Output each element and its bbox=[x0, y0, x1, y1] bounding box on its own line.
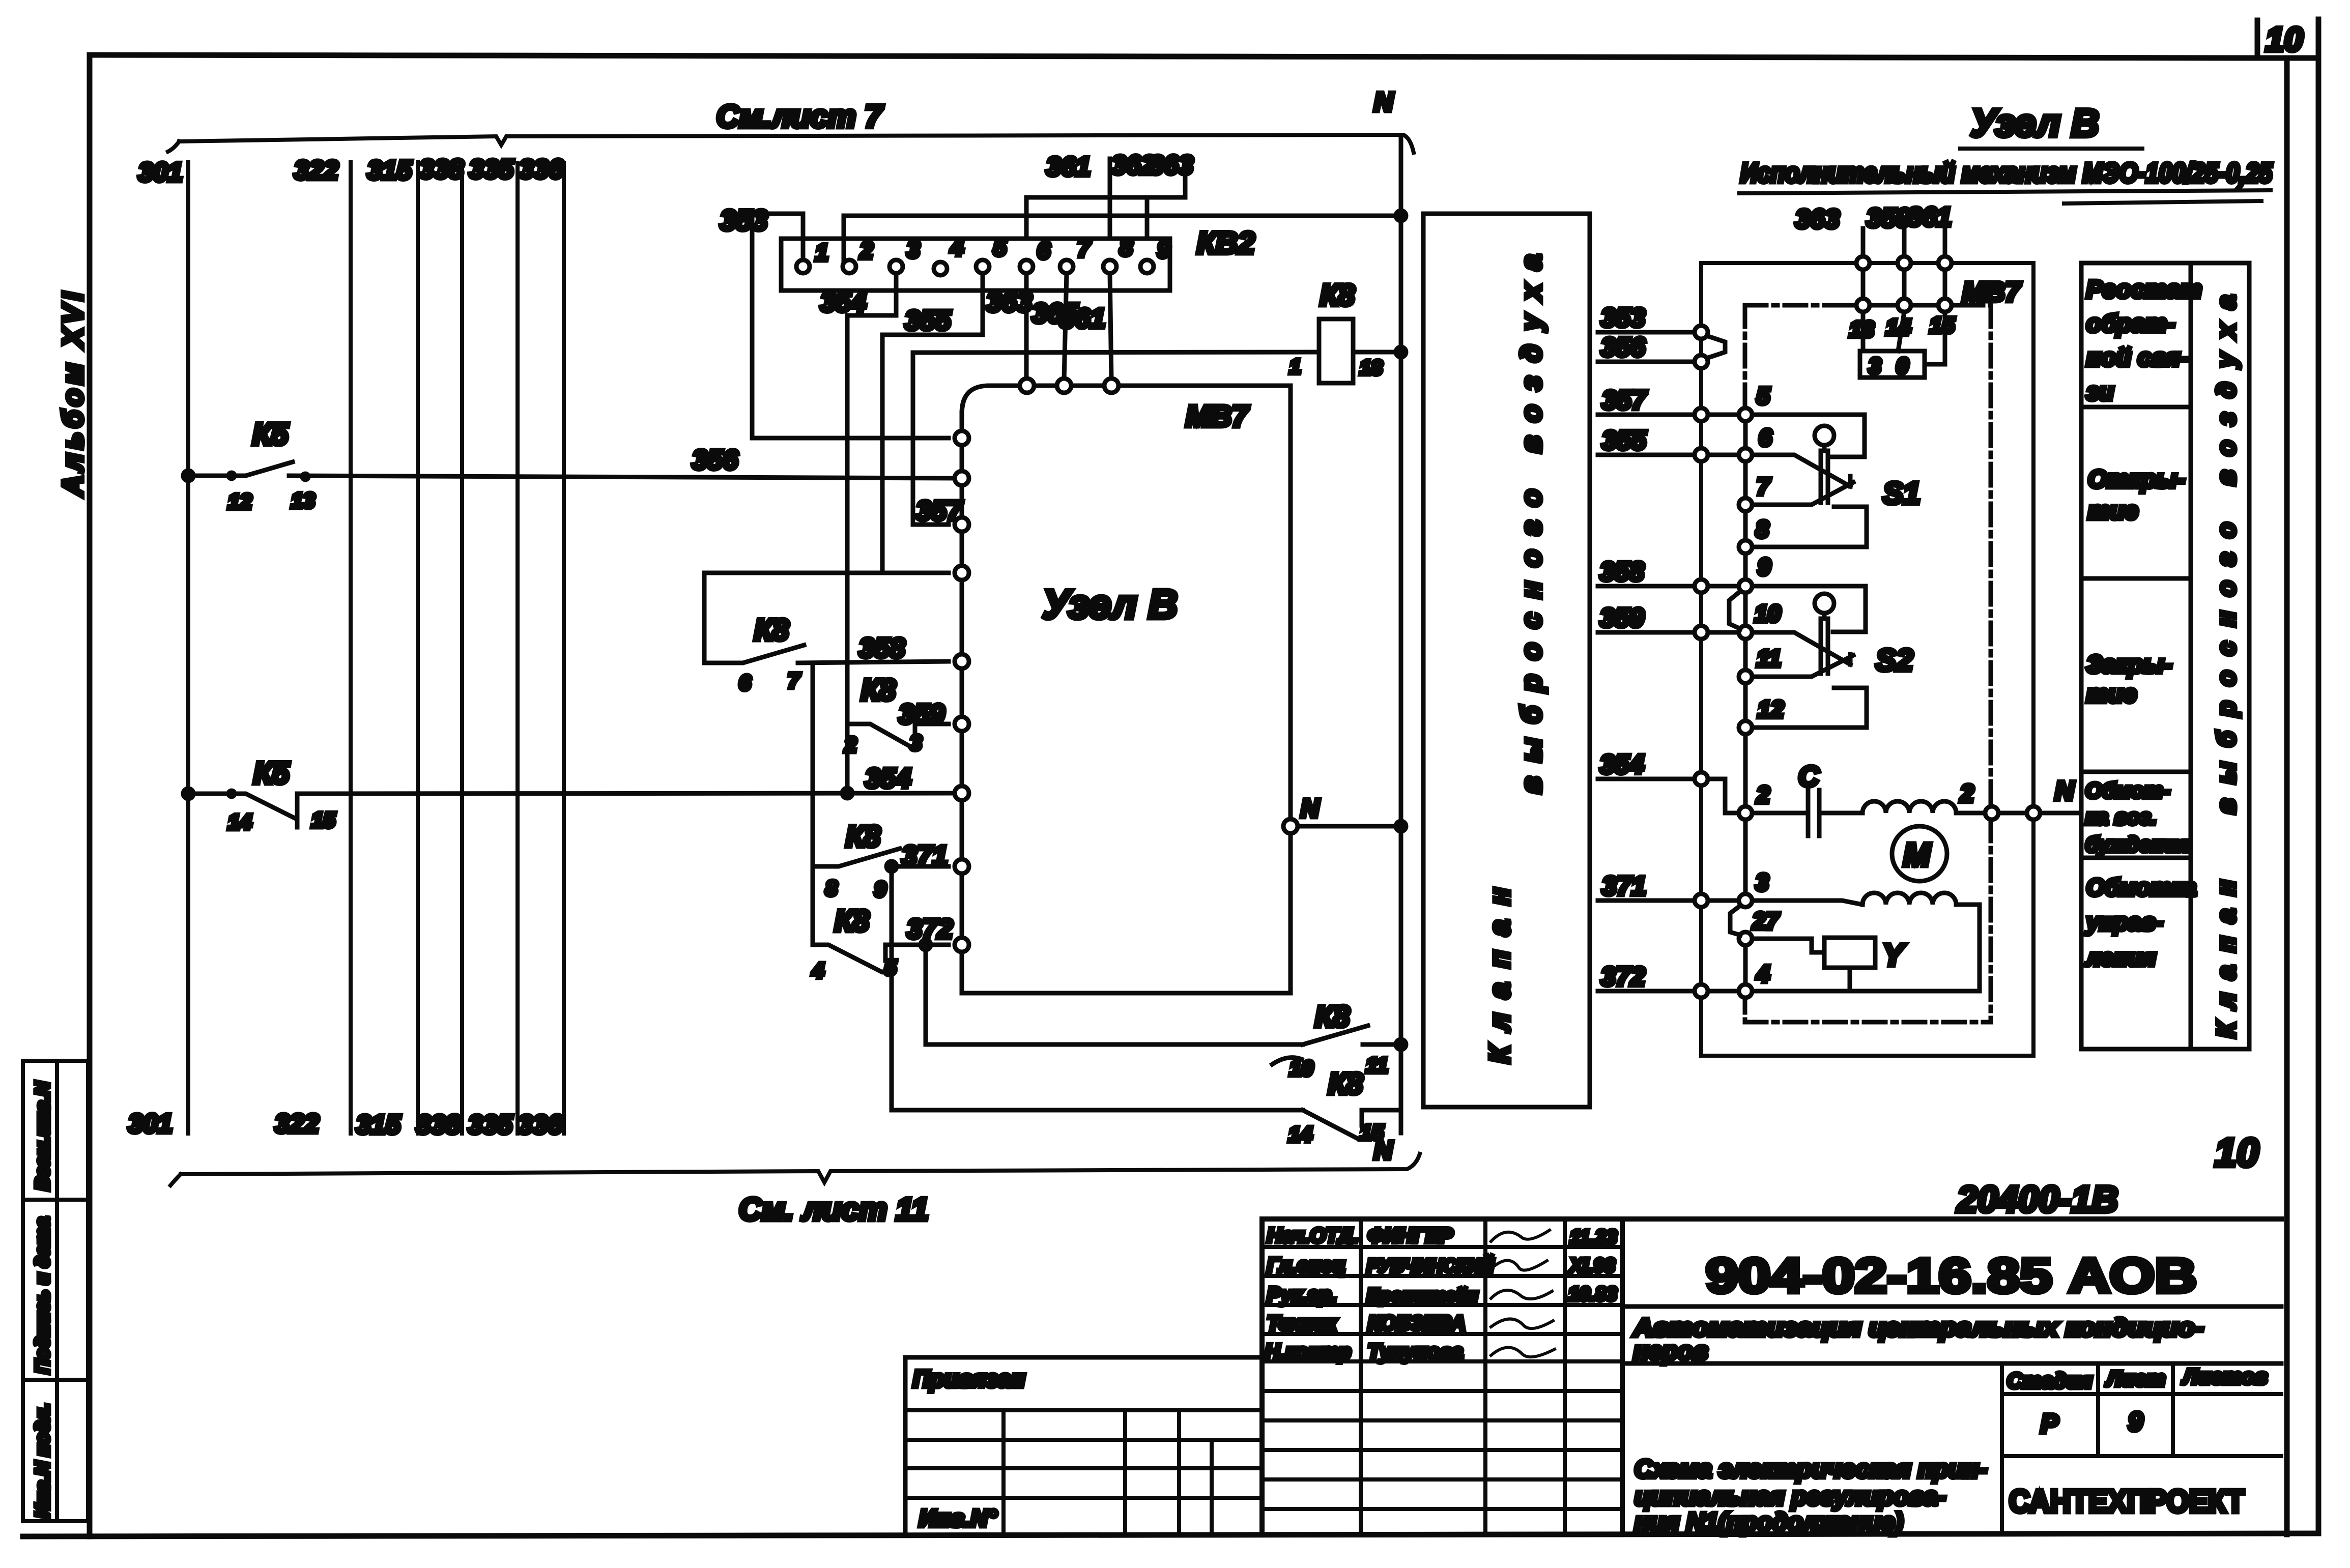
page right outer border bbox=[2316, 19, 2322, 1533]
wire from 372 node down to contact 10 row bbox=[926, 945, 1303, 1044]
wire 371 to terminal 3 bbox=[1708, 898, 1739, 903]
svg-text:К5: К5 bbox=[252, 417, 289, 451]
svg-text:14: 14 bbox=[228, 810, 252, 834]
terminal 12 bbox=[1739, 696, 1784, 734]
sidebar rotated text Подпись и дата bbox=[32, 1217, 53, 1374]
svg-text:S1: S1 bbox=[1883, 476, 1920, 510]
exhaust air valve tall box right bbox=[2191, 263, 2249, 1049]
svg-text:Рук.гр.: Рук.гр. bbox=[1267, 1284, 1337, 1306]
unit B terminal 371 bbox=[955, 859, 969, 874]
control winding bbox=[1862, 893, 1956, 905]
page top border bbox=[90, 55, 2257, 58]
feedback rheostat box 3-0 bbox=[1860, 312, 1945, 379]
svg-text:356: 356 bbox=[692, 445, 738, 475]
wire 359 top stub bbox=[1867, 204, 1911, 256]
svg-text:Нач.ОТД.: Нач.ОТД. bbox=[1267, 1225, 1359, 1247]
svg-text:2: 2 bbox=[1756, 781, 1770, 808]
contact K8 6-7 with wire 355 route bbox=[704, 573, 949, 694]
svg-text:Инв.N°: Инв.N° bbox=[919, 1505, 997, 1531]
svg-text:13: 13 bbox=[291, 488, 315, 512]
svg-text:363: 363 bbox=[1795, 205, 1840, 234]
wall terminal 357 bbox=[1695, 408, 1708, 421]
svg-text:355: 355 bbox=[905, 305, 951, 336]
svg-text:11.23: 11.23 bbox=[1570, 1227, 1617, 1248]
svg-text:8: 8 bbox=[1756, 516, 1769, 542]
capacitor C bbox=[1752, 760, 1862, 836]
wire 371 entry bbox=[1598, 872, 1695, 901]
svg-text:С: С bbox=[1798, 760, 1820, 792]
svg-text:15: 15 bbox=[311, 808, 335, 832]
wire 362 stub above KB2-9 bbox=[1111, 151, 1156, 239]
svg-text:10.83: 10.83 bbox=[1568, 1284, 1617, 1305]
wire winding to N bbox=[1956, 811, 2027, 816]
label feedback rheostat bbox=[2086, 276, 2202, 405]
svg-text:N: N bbox=[1301, 794, 1320, 823]
svg-text:9: 9 bbox=[1157, 236, 1170, 263]
svg-text:338: 338 bbox=[419, 155, 464, 184]
KB2 terminal 8 bbox=[1103, 234, 1133, 273]
svg-text:0: 0 bbox=[1896, 354, 1909, 379]
svg-text:МВ7: МВ7 bbox=[1186, 400, 1249, 433]
svg-text:6: 6 bbox=[739, 671, 751, 694]
svg-text:8: 8 bbox=[825, 876, 838, 900]
unit B terminal 357 bbox=[955, 517, 969, 532]
unit B terminal 359 bbox=[955, 717, 969, 731]
left sidebar boxes bbox=[23, 1061, 88, 1521]
svg-text:361: 361 bbox=[1046, 152, 1091, 182]
wire 355 from KB2-4 bbox=[882, 273, 983, 573]
svg-text:7: 7 bbox=[788, 669, 800, 692]
svg-text:4: 4 bbox=[1756, 961, 1770, 987]
label excitation winding bbox=[2085, 778, 2190, 856]
svg-text:18: 18 bbox=[1360, 357, 1383, 379]
svg-text:359: 359 bbox=[899, 699, 944, 730]
page right inner border bbox=[2284, 58, 2290, 1534]
terminal on dash-dot boundary bbox=[1985, 806, 1998, 820]
svg-text:358: 358 bbox=[1600, 557, 1644, 587]
svg-text:ной свя-: ной свя- bbox=[2086, 344, 2188, 371]
svg-text:Н.контр: Н.контр bbox=[1265, 1341, 1351, 1363]
relay coil K8 bbox=[1289, 279, 1383, 383]
svg-text:Инв.N подл.: Инв.N подл. bbox=[32, 1403, 53, 1518]
svg-text:Закры-: Закры- bbox=[2086, 651, 2172, 678]
wall terminal 358 bbox=[1695, 579, 1708, 593]
svg-text:353: 353 bbox=[720, 204, 767, 236]
svg-text:XI.93: XI.93 bbox=[1569, 1255, 1615, 1276]
svg-text:904-02-16.85 АОВ: 904-02-16.85 АОВ bbox=[1706, 1248, 2197, 1303]
svg-text:6: 6 bbox=[1037, 237, 1050, 264]
svg-text:Р: Р bbox=[2041, 1409, 2058, 1439]
svg-text:К8: К8 bbox=[1315, 1000, 1350, 1033]
svg-text:9: 9 bbox=[1758, 554, 1771, 580]
unit B top terminal 361 bbox=[1104, 379, 1119, 393]
sheet number box stub top right bbox=[2255, 20, 2260, 58]
project name Автоматизация центральных кондиционеров bbox=[1622, 1314, 2281, 1365]
svg-text:N: N bbox=[1374, 88, 1394, 117]
svg-text:335: 335 bbox=[468, 1110, 513, 1140]
unit B terminal 358 bbox=[955, 654, 969, 669]
svg-text:315: 315 bbox=[367, 156, 412, 185]
annotation column boxes bbox=[2081, 263, 2191, 1049]
wire 361 from KB2-8 down to unit B top bbox=[1059, 273, 1111, 380]
jumper 9-10 bbox=[1729, 591, 1740, 629]
svg-text:К8: К8 bbox=[1320, 279, 1355, 312]
svg-text:9: 9 bbox=[2128, 1407, 2143, 1437]
svg-text:тие: тие bbox=[2086, 681, 2137, 708]
wire 357 to terminal 5 bbox=[1708, 413, 1739, 417]
switch S2 bbox=[1752, 586, 1913, 728]
wall terminal 359 bbox=[1695, 626, 1708, 639]
wire 372 entry bbox=[1598, 962, 1695, 992]
handwritten doc number 20400-1В bbox=[1953, 1179, 2260, 1220]
svg-text:САНТЕХПРОЕКТ: САНТЕХПРОЕКТ bbox=[2009, 1484, 2244, 1519]
svg-text:11: 11 bbox=[1366, 1053, 1388, 1077]
relay Y bbox=[1752, 938, 1906, 991]
svg-text:М: М bbox=[1903, 836, 1931, 873]
svg-text:К8: К8 bbox=[754, 614, 789, 647]
svg-text:неров: неров bbox=[1633, 1338, 1708, 1365]
doc number 904-02-16.85 АОВ bbox=[1622, 1248, 2281, 1306]
svg-text:359: 359 bbox=[1600, 603, 1644, 633]
terminal column line bbox=[1743, 419, 1748, 984]
wall terminal 353 bbox=[1695, 326, 1708, 339]
wire 355 entry bbox=[1598, 426, 1695, 455]
wire N out bbox=[2040, 811, 2079, 816]
jumper 353-356 bbox=[1707, 336, 1725, 358]
bottom left attachment table bbox=[905, 1357, 1262, 1531]
svg-text:буждения: буждения bbox=[2085, 832, 2190, 856]
svg-text:3: 3 bbox=[910, 731, 922, 754]
svg-text:354: 354 bbox=[1600, 750, 1644, 779]
svg-text:Взам.инв.N: Взам.инв.N bbox=[32, 1081, 53, 1190]
svg-text:4: 4 bbox=[812, 959, 824, 982]
title block outer bbox=[1262, 1219, 2281, 1533]
bus 336 bbox=[562, 163, 566, 1134]
svg-text:зи: зи bbox=[2086, 379, 2114, 405]
svg-text:Альбом XVI: Альбом XVI bbox=[56, 292, 89, 497]
svg-text:2: 2 bbox=[844, 733, 856, 757]
top border segment to right edge bbox=[2257, 55, 2318, 61]
svg-text:См. лист 11: См. лист 11 bbox=[739, 1192, 929, 1227]
svg-text:27: 27 bbox=[1752, 908, 1780, 934]
wire 354 to terminal 2 bbox=[1708, 779, 1739, 813]
svg-text:Тулупова: Тулупова bbox=[1368, 1341, 1463, 1363]
svg-text:301: 301 bbox=[128, 1109, 173, 1139]
svg-text:15: 15 bbox=[1930, 313, 1955, 338]
svg-text:12: 12 bbox=[228, 489, 252, 513]
svg-text:обрат-: обрат- bbox=[2086, 310, 2175, 337]
svg-text:20400-1В: 20400-1В bbox=[1956, 1179, 2118, 1220]
svg-text:2: 2 bbox=[1960, 780, 1974, 807]
KB2 terminal 4 bbox=[934, 234, 964, 275]
brace see sheet 11 bbox=[170, 1154, 1420, 1185]
svg-text:Откры-: Откры- bbox=[2088, 466, 2185, 493]
junction 359 on box top bbox=[1898, 256, 1911, 270]
MB7 row with terminals 13 14 15 bbox=[1847, 277, 2022, 342]
terminal 10 bbox=[1739, 600, 1781, 639]
sheet name Схема электрическая принципиальная bbox=[1635, 1456, 1987, 1536]
label opening bbox=[2088, 466, 2185, 525]
wire 363 from KB2-5 to unit B top bbox=[986, 273, 1032, 380]
unit B terminal 353 bbox=[955, 431, 969, 445]
svg-text:тие: тие bbox=[2088, 498, 2138, 525]
unit B terminal 354 bbox=[955, 786, 969, 800]
wall terminal 354 bbox=[1695, 772, 1708, 786]
svg-text:7: 7 bbox=[1077, 235, 1092, 262]
svg-text:ФИНГЕР: ФИНГЕР bbox=[1368, 1225, 1453, 1247]
bus 315 bbox=[416, 162, 420, 1134]
svg-text:357: 357 bbox=[1602, 386, 1647, 415]
junction 363 on box top bbox=[1856, 256, 1870, 270]
svg-text:Обмотка: Обмотка bbox=[2086, 874, 2196, 901]
wire K8 coil to N line bbox=[1353, 350, 1401, 355]
svg-text:управ-: управ- bbox=[2085, 909, 2163, 935]
wire 363 top stub bbox=[1795, 205, 1863, 256]
svg-text:359: 359 bbox=[1867, 204, 1911, 233]
bus 322 bbox=[349, 162, 353, 1134]
sidebar rotated text Инв.№подл. bbox=[32, 1403, 53, 1518]
svg-text:См.лист 7: См.лист 7 bbox=[717, 99, 883, 134]
svg-text:К8: К8 bbox=[835, 905, 870, 938]
signature row Гл.спец Рубчинский bbox=[1267, 1254, 1615, 1276]
sidebar rotated text Взам.инв.№ bbox=[32, 1081, 53, 1190]
terminal 4 bbox=[1739, 961, 1770, 998]
terminal 6 bbox=[1739, 424, 1772, 461]
svg-text:1: 1 bbox=[1289, 356, 1301, 378]
contact K8 14-15 bbox=[1288, 1067, 1401, 1165]
svg-text:2: 2 bbox=[859, 237, 873, 264]
svg-text:КВ2: КВ2 bbox=[1197, 226, 1255, 260]
svg-text:336: 336 bbox=[519, 155, 564, 184]
wire 358 to terminal 9 bbox=[1708, 584, 1739, 589]
svg-text:371: 371 bbox=[1602, 872, 1646, 901]
svg-text:Гл.спец: Гл.спец bbox=[1267, 1254, 1345, 1276]
signature row Н.контр Тулупова bbox=[1265, 1341, 1555, 1363]
svg-text:ния N1(продолжение): ния N1(продолжение) bbox=[1635, 1508, 1903, 1536]
svg-text:КОБЗЕВА: КОБЗЕВА bbox=[1368, 1312, 1466, 1334]
bus 338 bbox=[460, 163, 464, 1134]
svg-text:S2: S2 bbox=[1876, 643, 1913, 677]
page bottom border bbox=[23, 1533, 2318, 1536]
stator winding bbox=[1862, 801, 1956, 813]
svg-text:336: 336 bbox=[518, 1110, 563, 1140]
terminal 7 bbox=[1739, 473, 1771, 511]
svg-text:5: 5 bbox=[1757, 383, 1770, 409]
wire terminal 4 bottom row bbox=[1752, 989, 1980, 994]
motor M bbox=[1892, 826, 1947, 881]
svg-text:4: 4 bbox=[950, 234, 964, 260]
margin rotated text Альбом XVI bbox=[56, 292, 89, 497]
actuator dash-dot boundary bbox=[1745, 305, 1991, 1022]
svg-text:354: 354 bbox=[865, 763, 911, 794]
terminal 9 bbox=[1739, 554, 1771, 593]
wire 354 entry bbox=[1598, 750, 1695, 779]
switch S1 bbox=[1752, 415, 1920, 547]
KB2 terminal 7 bbox=[1060, 235, 1092, 273]
unit B top terminal 363 bbox=[1020, 379, 1034, 393]
contact K8 8-9 wire 371 bbox=[813, 820, 949, 901]
svg-text:338: 338 bbox=[416, 1110, 461, 1140]
verticals from top bus to MB7 row bbox=[1863, 270, 1945, 299]
wire from contact 9 down to contact 14 row bbox=[892, 866, 1303, 1110]
svg-text:3: 3 bbox=[907, 236, 920, 263]
stage sheet table bbox=[2002, 1363, 2281, 1533]
svg-text:10: 10 bbox=[1755, 600, 1781, 627]
svg-text:8: 8 bbox=[1120, 234, 1133, 260]
wire 353 from KB2-1 to node B bbox=[720, 204, 949, 438]
wire 357 tap to unit B bbox=[913, 353, 963, 526]
unit B box МВ7 bbox=[962, 386, 1291, 993]
wall terminal 356 bbox=[1695, 355, 1708, 368]
wire 372 to terminal 4 bbox=[1708, 989, 1739, 994]
svg-text:361: 361 bbox=[1907, 202, 1952, 232]
svg-text:3: 3 bbox=[1756, 869, 1769, 895]
unit B terminal 355 bbox=[955, 566, 969, 580]
svg-text:Лист: Лист bbox=[2105, 1367, 2165, 1390]
jumper 3-27 bbox=[1730, 906, 1740, 935]
svg-text:Техник: Техник bbox=[1267, 1312, 1337, 1334]
contact K8 4-5 wire 372 bbox=[812, 866, 953, 982]
terminal N on box edge bbox=[2027, 806, 2040, 820]
svg-text:МВ7: МВ7 bbox=[1962, 277, 2022, 307]
wire winding right down to bottom row bbox=[1956, 905, 1980, 991]
signature row Нач.ОТД. Фингер bbox=[1267, 1225, 1617, 1248]
svg-text:11: 11 bbox=[1757, 645, 1781, 672]
terminal block KB2 bbox=[781, 226, 1255, 291]
contact K5 12-13 and wire 356 row bbox=[183, 471, 193, 481]
brace see sheet 7 bbox=[168, 135, 1414, 153]
bus 301 bbox=[186, 162, 190, 1134]
wire 363 jog above KB2-6 bbox=[1026, 151, 1193, 239]
svg-text:N: N bbox=[2055, 776, 2075, 806]
label closing bbox=[2086, 651, 2172, 708]
svg-text:355: 355 bbox=[1602, 426, 1647, 455]
wire 365 from KB2-7 to unit B top bbox=[1032, 273, 1078, 380]
contact K8 10-11 bbox=[1272, 1000, 1406, 1080]
KB2 terminal 9 bbox=[1140, 236, 1170, 273]
svg-text:10: 10 bbox=[2266, 20, 2303, 58]
svg-text:10: 10 bbox=[1289, 1056, 1313, 1080]
svg-text:Обмот-: Обмот- bbox=[2085, 778, 2170, 802]
actuator outer box bbox=[1701, 263, 2033, 1056]
KB2 terminal 1 bbox=[796, 239, 828, 273]
KB2 terminal 3 bbox=[890, 236, 920, 273]
contact K5 14-15 and wire 354 row bbox=[183, 789, 193, 799]
title block signature grid bbox=[1262, 1219, 1622, 1533]
bus 335 bbox=[515, 163, 520, 1134]
svg-text:9: 9 bbox=[874, 877, 886, 901]
wire 357 entry bbox=[1598, 386, 1695, 415]
title Исполнительный механизм МЭО-100/25-0,25 bbox=[1739, 158, 2273, 204]
wire drop from node 358 to contact 8 bbox=[811, 663, 815, 866]
wire 359 entry bbox=[1598, 603, 1695, 633]
svg-text:К8: К8 bbox=[846, 820, 881, 853]
svg-text:Автоматизация центральных конд: Автоматизация центральных кондицио- bbox=[1633, 1314, 2203, 1342]
wire terminal 3 to control winding bbox=[1752, 901, 1862, 905]
junction 361 on box top bbox=[1938, 256, 1952, 270]
svg-text:К8: К8 bbox=[861, 674, 896, 707]
wire 361 stub above KB2-8 bbox=[1046, 152, 1110, 239]
svg-text:Исполнительный механизм МЭО-: Исполнительный механизм МЭО-100/25-0,25 bbox=[1740, 158, 2273, 188]
svg-text:Привязан: Привязан bbox=[913, 1366, 1025, 1392]
svg-text:361: 361 bbox=[1059, 303, 1105, 334]
unit B top terminal 365 bbox=[1057, 379, 1071, 393]
svg-text:Реостат: Реостат bbox=[2086, 276, 2202, 303]
wall terminal 372 bbox=[1695, 984, 1708, 998]
svg-text:ления: ления bbox=[2085, 944, 2156, 971]
svg-text:К5: К5 bbox=[253, 756, 290, 790]
svg-text:315: 315 bbox=[356, 1110, 401, 1140]
junction on N line bbox=[1396, 211, 1406, 221]
wire 356 entry bbox=[1598, 333, 1695, 362]
svg-text:335: 335 bbox=[469, 155, 514, 184]
svg-text:Схема электрическая прин-: Схема электрическая прин- bbox=[1635, 1456, 1987, 1483]
svg-text:ципиальная регулирова-: ципиальная регулирова- bbox=[1635, 1483, 1946, 1511]
wall terminal 355 bbox=[1695, 448, 1708, 461]
svg-text:5: 5 bbox=[993, 234, 1007, 260]
wire unit B N to N line bbox=[1298, 824, 1401, 829]
wire N vertical bbox=[1399, 136, 1403, 1133]
svg-text:К8: К8 bbox=[1328, 1067, 1363, 1100]
label control winding bbox=[2085, 874, 2196, 971]
terminal 8 bbox=[1739, 516, 1769, 554]
wire from KB2-2 up to N rail bbox=[844, 216, 1401, 260]
svg-text:3: 3 bbox=[1869, 354, 1881, 379]
signature row Рук.гр. Бронштейн bbox=[1267, 1284, 1617, 1306]
exhaust air valve box bbox=[1423, 214, 1590, 1107]
svg-text:N: N bbox=[1374, 1136, 1393, 1165]
terminal 5 bbox=[1739, 383, 1770, 421]
svg-text:353: 353 bbox=[1601, 303, 1645, 333]
svg-text:301: 301 bbox=[138, 158, 183, 187]
wire 358 entry bbox=[1598, 557, 1695, 587]
svg-text:12: 12 bbox=[1758, 696, 1784, 722]
wall terminal 371 bbox=[1695, 894, 1708, 907]
svg-text:1: 1 bbox=[815, 239, 828, 266]
svg-text:Y: Y bbox=[1883, 938, 1906, 972]
svg-text:Бронштейн: Бронштейн bbox=[1367, 1285, 1478, 1305]
svg-text:372: 372 bbox=[1601, 962, 1645, 992]
KB2 terminal 2 bbox=[843, 237, 873, 273]
terminal 11 bbox=[1739, 645, 1781, 683]
KB2 terminal 5 bbox=[976, 234, 1007, 273]
svg-text:Узел В: Узел В bbox=[1970, 102, 2099, 145]
page left border bbox=[87, 55, 93, 1536]
svg-text:356: 356 bbox=[1601, 333, 1646, 362]
svg-text:363: 363 bbox=[1149, 151, 1193, 180]
svg-text:Листов: Листов bbox=[2182, 1364, 2268, 1388]
terminal 27 bbox=[1739, 908, 1780, 945]
svg-text:358: 358 bbox=[859, 633, 905, 663]
contact K8 2-3 wire 359 bbox=[844, 674, 949, 757]
svg-text:Подпись и дата: Подпись и дата bbox=[32, 1217, 53, 1374]
svg-text:РУБЧИНСКИЙ: РУБЧИНСКИЙ bbox=[1367, 1255, 1494, 1276]
unit B terminal N bbox=[1283, 819, 1298, 833]
svg-text:322: 322 bbox=[275, 1109, 319, 1139]
KB2 terminal 6 bbox=[1020, 237, 1050, 273]
signature row Техник Кобзева bbox=[1267, 1312, 1553, 1334]
svg-text:322: 322 bbox=[294, 156, 338, 185]
terminal 2 bbox=[1739, 781, 1770, 820]
svg-text:14: 14 bbox=[1288, 1122, 1312, 1146]
wire 359 to terminal 10 bbox=[1708, 630, 1739, 635]
svg-text:10: 10 bbox=[2215, 1130, 2259, 1175]
wire 353 entry bbox=[1598, 303, 1695, 333]
terminal 3 bbox=[1739, 869, 1769, 907]
svg-text:354: 354 bbox=[820, 287, 866, 317]
wire from node 357 to relay K8 coil bbox=[913, 352, 1319, 353]
svg-text:ка воз.: ка воз. bbox=[2085, 805, 2157, 829]
